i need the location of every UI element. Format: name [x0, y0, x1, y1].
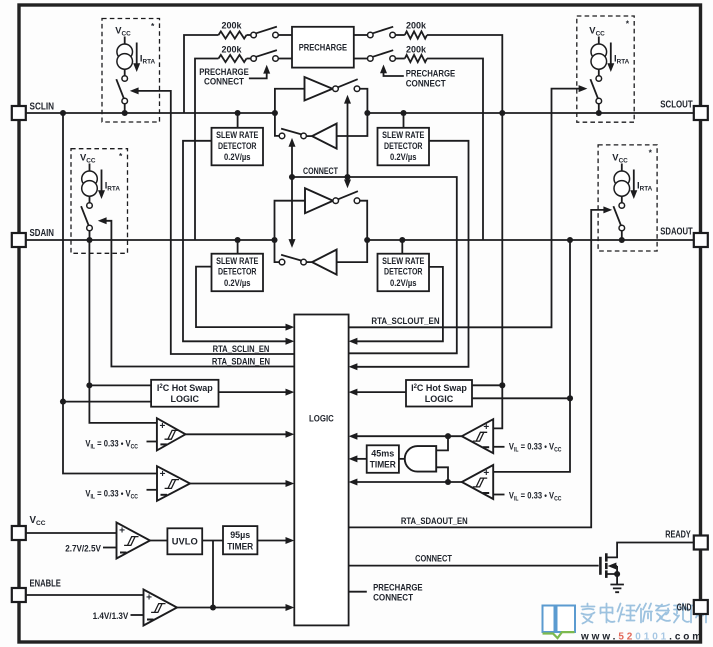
wire CONNECT mid to LOGIC: [292, 177, 457, 353]
svg-text:0.2V/µs: 0.2V/µs: [390, 152, 417, 162]
current source IRTA (SCLIN): [124, 37, 126, 45]
resistor R2 200k: [219, 55, 247, 62]
gate AND (ready filter): [405, 446, 436, 472]
switch RTA (SCLOUT): [596, 76, 602, 82]
junction SCLIN sense: [60, 110, 66, 116]
switch RTA (SDAOUT): [619, 203, 625, 209]
comparator C1 UVLO sense: [117, 523, 151, 559]
comparator A2 (SCLIN VIL): [157, 466, 190, 501]
ground symbol: [610, 585, 624, 593]
box PRECHARGE: [292, 27, 354, 68]
wire SCLOUT rail to slew det: [403, 113, 405, 128]
wire CONNECT ctrl SDA rev: [291, 177, 293, 244]
wire SDAIN rail to R2: [195, 59, 219, 241]
switch SDA forward: [333, 198, 339, 204]
svg-text:CONNECT: CONNECT: [415, 554, 452, 565]
svg-text:TIMER: TIMER: [370, 460, 396, 470]
pin SCLIN: [12, 106, 26, 120]
svg-text:1.4V/1.3V: 1.4V/1.3V: [93, 611, 129, 621]
svg-text:2.7V/2.5V: 2.7V/2.5V: [65, 544, 101, 554]
svg-text:CONNECT: CONNECT: [406, 78, 446, 88]
svg-text:SCLOUT: SCLOUT: [660, 100, 692, 111]
svg-text:200k: 200k: [406, 44, 427, 55]
comparator B1 (SCLOUT VIL): [462, 419, 493, 453]
resistor R1 200k: [219, 31, 247, 38]
svg-text:+: +: [160, 469, 166, 480]
arrow IRTA (SCLIN): [136, 43, 138, 69]
junction RTA/rail (SCLOUT): [596, 110, 602, 116]
junction B1/AND: [445, 433, 451, 439]
wire SCLIN rail to R1: [184, 35, 219, 113]
switch precharge SCL-in: [251, 32, 257, 38]
svg-text:DETECTOR: DETECTOR: [384, 141, 423, 151]
wire slew SDAIN out to LOGIC: [196, 267, 291, 328]
wire AND to 45ms timer: [399, 458, 405, 460]
junction SCLIN rail/left vert: [272, 110, 278, 116]
svg-text:200k: 200k: [406, 20, 427, 31]
svg-text:LOGIC: LOGIC: [171, 394, 200, 404]
wire A1 minus stub: [147, 441, 157, 443]
junction ENABLE/UVLO branch: [210, 604, 216, 610]
wire VCC pin to comparator: [26, 532, 117, 534]
pin VCC: [12, 526, 26, 540]
svg-text:CONNECT: CONNECT: [303, 166, 338, 177]
wire R1 to switch: [247, 34, 251, 36]
box I2C Hot Swap LOGIC (right): [406, 380, 472, 407]
wire RTA_SDAIN_EN: [101, 221, 294, 367]
wire UVLO branch down: [212, 541, 214, 608]
arrow IRTA (SDAOUT): [633, 170, 635, 196]
wire SDAOUT rail to slew det: [401, 240, 403, 254]
wire A2 minus stub: [147, 489, 158, 491]
svg-text:PRECHARGE: PRECHARGE: [199, 67, 249, 77]
junction slew SDAIN: [235, 237, 241, 243]
svg-text:DETECTOR: DETECTOR: [218, 141, 257, 151]
wire slew SCLIN out to LOGIC: [183, 141, 291, 341]
wire ENABLE pin to comparator: [26, 594, 144, 596]
box LOGIC: [294, 315, 348, 626]
wire B2 minus stub: [493, 494, 504, 496]
svg-text:PRECHARGE: PRECHARGE: [373, 582, 423, 592]
wire SCL right vertical: [337, 89, 368, 136]
wire SDAOUT sense vertical: [493, 240, 570, 472]
svg-text:+: +: [483, 422, 489, 433]
watermark: book logo right page: [557, 606, 576, 633]
wire B1 to AND gate: [436, 436, 448, 450]
pin SDAOUT: [694, 233, 708, 247]
wire SCLIN rail: [26, 112, 275, 114]
wire CONNECT ctrl SCL rev: [291, 142, 293, 177]
wire B1 minus stub: [493, 446, 504, 448]
pin GND: [694, 600, 708, 614]
current source IRTA (SCLOUT): [598, 37, 600, 45]
junction slew SDAOUT: [399, 237, 405, 243]
box I2C Hot Swap LOGIC (left): [151, 380, 218, 407]
junction SCLOUT rail/R3: [499, 110, 505, 116]
wire SDA left vertical: [275, 201, 306, 262]
svg-text:RTA_SDAOUT_EN: RTA_SDAOUT_EN: [401, 516, 468, 527]
wire switch to R3: [395, 34, 405, 36]
wire comp B2 out to LOGIC: [352, 481, 462, 483]
watermark: green swoosh: [543, 632, 575, 638]
wire PRECHARGE box to switch (row2 right): [354, 58, 368, 60]
wire 45ms timer out to LOGIC: [352, 458, 367, 460]
comparator A1 (SDAIN VIL): [157, 418, 186, 450]
wire switch to PRECHARGE box (row2): [278, 58, 292, 60]
switch precharge SCL-out: [368, 32, 374, 38]
resistor R4 200k: [405, 55, 427, 62]
wire U2 to switch: [306, 135, 312, 137]
box SLEW RATE DETECTOR (SCLIN): [212, 128, 264, 166]
svg-text:SLEW RATE: SLEW RATE: [382, 130, 424, 140]
svg-text:200k: 200k: [222, 20, 243, 31]
buffer U4 SDA reverse: [312, 250, 337, 275]
wire B2 to AND gate: [436, 467, 448, 482]
svg-text:RTA_SDAIN_EN: RTA_SDAIN_EN: [212, 357, 270, 368]
current source IRTA (SDAIN): [89, 164, 91, 172]
svg-text:GND: GND: [677, 603, 692, 614]
box SLEW RATE DETECTOR (SDAIN): [212, 254, 264, 292]
wire CONNECT ctrl SCL fwd: [347, 99, 349, 177]
buffer U2 SCL reverse: [312, 124, 337, 149]
junction I2C-L lower: [60, 399, 66, 405]
comparator C2 ENABLE: [144, 590, 178, 626]
wire SDA right vertical: [337, 201, 368, 262]
svg-text:I2C Hot Swap: I2C Hot Swap: [411, 383, 467, 393]
junction I2C-R lower: [567, 395, 573, 401]
watermark: book logo left page: [543, 606, 555, 633]
box SLEW RATE DETECTOR (SCLOUT): [378, 128, 430, 166]
wire 95us timer to LOGIC: [257, 540, 290, 542]
wire SDAIN rail: [26, 239, 275, 241]
switch RTA (SDAIN): [87, 203, 93, 209]
wire RTA_SDAOUT_EN: [349, 210, 609, 528]
svg-text:DETECTOR: DETECTOR: [218, 267, 257, 277]
svg-text:I2C Hot Swap: I2C Hot Swap: [157, 383, 213, 393]
wire 1.4V stub: [131, 614, 144, 616]
wire C1 to UVLO: [150, 540, 167, 542]
wire slew SCLOUT out to LOGIC: [352, 141, 468, 367]
junction RTA/rail (SDAOUT): [619, 237, 625, 243]
wire PRECHARGE box to switch (row1 right): [354, 34, 368, 36]
junction SDAIN rail/left vert: [271, 237, 277, 243]
wire RTA switch to rail (SDAIN): [89, 231, 91, 240]
junction SCLOUT rail/right vert: [364, 110, 370, 116]
RTA dashed box (SDAIN): [71, 149, 128, 254]
wire SCLIN rail to slew det: [237, 113, 239, 128]
junction RTA/rail (SCLIN): [122, 110, 128, 116]
pin ENABLE: [12, 588, 26, 602]
svg-text:RTA_SCLIN_EN: RTA_SCLIN_EN: [213, 344, 270, 355]
wire R3 to SCLOUT rail: [427, 35, 502, 113]
svg-text:SLEW RATE: SLEW RATE: [216, 130, 258, 140]
wire RTA switch to rail (SCLIN): [124, 104, 126, 113]
wire slew SDAOUT out to LOGIC: [352, 267, 443, 341]
buffer U1 SCL forward: [305, 77, 333, 101]
transistor Q1 channel bars: [605, 553, 608, 578]
svg-text:LOGIC: LOGIC: [425, 394, 454, 404]
junction RTA/rail (SDAIN): [86, 237, 92, 243]
arrow IRTA (SDAIN): [101, 170, 103, 196]
junction CONNECT/rev ctrl: [289, 174, 295, 180]
junction I2C-L upper: [86, 382, 92, 388]
junction CONNECT/fwd ctrl: [344, 174, 350, 180]
svg-text:TIMER: TIMER: [227, 541, 253, 551]
box 45ms TIMER: [367, 445, 399, 473]
wire Q1 source to ground: [606, 574, 617, 585]
wire I2C right lower input: [472, 397, 570, 399]
junction B2/AND: [445, 479, 451, 485]
junction SDAOUT rail/right vert: [364, 237, 370, 243]
svg-text:CONNECT: CONNECT: [373, 592, 413, 602]
box 95us TIMER: [223, 526, 257, 554]
wire R4 to SDAOUT rail: [427, 59, 483, 241]
junction I2C-R upper: [499, 382, 505, 388]
wire SCL left vertical: [275, 89, 305, 136]
wire comp A1 out: [186, 433, 291, 435]
wire I2C right upper input: [472, 384, 502, 386]
svg-text:READY: READY: [665, 529, 691, 540]
RTA dashed box (SCLOUT): [577, 16, 634, 122]
comparator B2 (SDAOUT VIL): [462, 465, 493, 499]
junction SDAOUT sense: [567, 237, 573, 243]
switch SCL forward: [333, 86, 339, 92]
switch SCL reverse: [279, 133, 285, 139]
pin SDAIN: [12, 233, 26, 247]
box SLEW RATE DETECTOR (SDAOUT): [378, 254, 430, 292]
wire 2.7V stub: [103, 547, 117, 549]
wire CONNECT to MOSFET gate: [349, 565, 599, 567]
wire SCLIN sense vertical: [63, 113, 157, 474]
wire SDAIN rail to slew det: [237, 240, 239, 254]
svg-text:45ms: 45ms: [371, 448, 394, 458]
svg-text:PRECHARGE: PRECHARGE: [406, 69, 456, 79]
svg-text:+: +: [483, 468, 489, 479]
wire Q1 drain to READY: [606, 543, 694, 558]
buffer U3 SDA forward: [305, 188, 333, 213]
junction slew SCLOUT: [400, 110, 406, 116]
wire precharge-connect ctrl (left): [249, 69, 267, 79]
wire SDAOUT rail: [367, 239, 694, 241]
svg-text:200k: 200k: [222, 44, 243, 55]
wire SCLOUT rail: [367, 112, 693, 114]
svg-text:0.2V/µs: 0.2V/µs: [224, 152, 251, 162]
RTA dashed box (SCLIN): [102, 19, 160, 123]
svg-text:0.2V/µs: 0.2V/µs: [224, 278, 251, 288]
junction Q1 source: [614, 571, 620, 577]
resistor R3 200k: [405, 31, 427, 38]
transistor Q1 gate bar: [599, 557, 602, 575]
svg-text:SLEW RATE: SLEW RATE: [216, 256, 258, 266]
svg-text:DETECTOR: DETECTOR: [384, 267, 423, 277]
svg-text:LOGIC: LOGIC: [309, 412, 334, 423]
wire C2 out to LOGIC: [177, 607, 291, 609]
svg-text:+: +: [160, 421, 166, 432]
switch precharge SDA-in: [251, 56, 257, 62]
svg-text:SDAIN: SDAIN: [30, 228, 55, 239]
wire I2C right out to LOGIC: [352, 391, 406, 393]
arrow IRTA (SCLOUT): [610, 43, 612, 69]
wire I2C left out to LOGIC: [219, 391, 291, 393]
svg-text:+: +: [146, 593, 152, 604]
wire SCLOUT sense vertical: [493, 113, 502, 428]
wire UVLO to 95us timer: [202, 540, 223, 542]
box UVLO: [167, 528, 202, 554]
wire PRECHARGE CONNECT stub: [349, 591, 367, 593]
svg-text:+: +: [119, 526, 125, 537]
svg-text:UVLO: UVLO: [172, 536, 198, 546]
wire R2 to switch: [247, 58, 251, 60]
wire switch to PRECHARGE box (row1): [278, 34, 292, 36]
svg-text:95µs: 95µs: [230, 530, 250, 540]
wire RTA_SCLIN_EN: [133, 91, 294, 354]
current source IRTA (SDAOUT): [621, 164, 623, 172]
wire RTA switch to rail (SCLOUT): [598, 104, 600, 113]
pin READY: [694, 536, 708, 550]
switch precharge SDA-out: [368, 56, 374, 62]
wire U4 to switch: [306, 261, 312, 263]
svg-text:SDAOUT: SDAOUT: [660, 227, 692, 238]
wire I2C left lower input: [63, 401, 151, 403]
wire I2C left upper input: [89, 384, 151, 386]
switch SDA reverse: [279, 259, 285, 265]
transistor Q1 body arrow: [613, 565, 618, 567]
wire comp A2 out: [190, 483, 291, 485]
watermark: chinese site name strokes: [582, 604, 595, 624]
wire RTA_SCLOUT_EN: [349, 89, 584, 328]
wire switch to R4: [395, 58, 405, 60]
svg-text:CONNECT: CONNECT: [204, 76, 244, 86]
pin SCLOUT: [694, 106, 708, 120]
wire precharge-connect ctrl (right): [384, 69, 404, 77]
svg-text:SLEW RATE: SLEW RATE: [382, 256, 424, 266]
switch RTA (SCLIN): [122, 76, 128, 82]
wire RTA switch to rail (SDAOUT): [621, 231, 623, 240]
wire comp B1 out to LOGIC: [352, 435, 462, 437]
svg-text:SCLIN: SCLIN: [30, 102, 55, 113]
svg-text:ENABLE: ENABLE: [30, 579, 62, 590]
wire CONNECT ctrl SDA fwd: [347, 177, 349, 185]
wire SDAIN sense vertical: [89, 240, 156, 423]
RTA dashed box (SDAOUT): [598, 145, 657, 251]
svg-text:RTA_SCLOUT_EN: RTA_SCLOUT_EN: [371, 316, 439, 327]
svg-text:0.2V/µs: 0.2V/µs: [390, 278, 417, 288]
junction slew SCLIN: [235, 110, 241, 116]
svg-text:PRECHARGE: PRECHARGE: [299, 42, 347, 53]
